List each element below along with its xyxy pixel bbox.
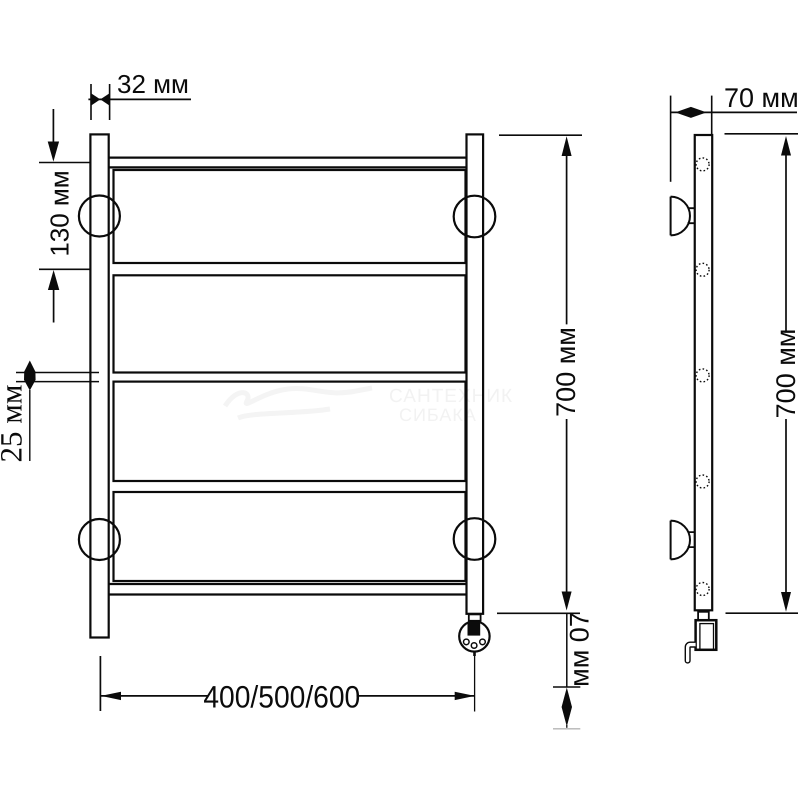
side heater collar [698,612,709,620]
bracket bottom-right [454,518,496,560]
dim 70mm-side diamond arrow [675,107,706,118]
dim 700mm-right bottom extension [726,612,799,614]
side mount hole 4 [696,475,709,488]
svg-text:130 мм: 130 мм [45,170,75,256]
rung 3 [114,382,466,481]
svg-text:700 мм: 700 мм [551,327,581,417]
bracket top-right [454,196,496,238]
watermark caption [389,386,513,425]
dim 70mm-side line [671,111,797,113]
side-view bar [695,135,712,610]
svg-text:70 мм: 70 мм [724,83,799,113]
heater pin left [464,639,470,645]
heater cap [459,621,489,651]
side mount hole 2 [696,263,709,276]
dim 32mm extension lines [91,84,110,120]
left rail [90,134,108,637]
side bracket bottom [671,521,695,560]
side heater hook [685,642,695,663]
dim 25mm ticks [16,373,99,382]
dim 700mm-left line lower [566,419,568,593]
side bracket top [671,197,695,236]
side heater box [696,620,717,650]
dim 70mm-left tick bottom [553,686,580,688]
watermark squiggle [225,388,372,418]
dim 130mm tick bottom [39,268,91,270]
side mount hole 3 [696,369,709,382]
rung 2 [114,275,466,372]
svg-text:мм 07: мм 07 [565,612,595,687]
bracket bottom-left [79,519,120,560]
dim 70mm-left tick top [497,612,580,614]
heater terminal block [468,622,481,636]
rung 4 [114,492,466,581]
dim 25mm star arrows [24,361,36,391]
dim 70mm-left gray tick [553,728,580,730]
top crossbar [109,158,467,168]
side mount hole 5 [696,583,709,596]
dim 32mm line [88,98,191,100]
svg-text:32 мм: 32 мм [117,69,189,99]
dim width arrows [101,692,121,700]
dim 25mm leader [29,390,31,461]
dim 70mm-left line [566,613,568,687]
dim 70mm-side left extension [670,96,672,182]
heater collar [469,614,481,620]
bracket top-left [79,196,120,237]
heater wire [474,656,476,712]
right rail [467,134,484,613]
svg-text:700 мм: 700 мм [771,329,800,419]
side mount hole 1 [696,158,709,171]
heater pin middle [471,643,477,649]
dim 130mm upper arrow [52,109,54,142]
dim 70mm-side right extension [711,96,713,135]
bottom crossbar [109,584,467,595]
dim 700mm-left top extension [499,134,582,136]
rung 1 [114,170,466,263]
dim width line [101,695,475,697]
dim 70mm-left diamond arrow [562,688,572,727]
dim 700mm-right line upper [785,155,787,331]
dim 130mm lower arrow [48,270,59,290]
svg-text:САНТЕХНИК: САНТЕХНИК [389,386,513,407]
dim 700mm-left line upper [566,156,568,325]
heater nipple [473,652,476,656]
dim 130mm tick top [39,162,90,164]
dim 700mm-right line lower [785,419,787,592]
dim 700mm-right top extension [725,133,799,135]
svg-text:25 мм: 25 мм [0,385,29,463]
heater pin right [480,639,486,645]
dim 32mm arrows [91,93,110,105]
dim width extension left [99,656,101,711]
svg-text:400/500/600: 400/500/600 [203,680,360,715]
